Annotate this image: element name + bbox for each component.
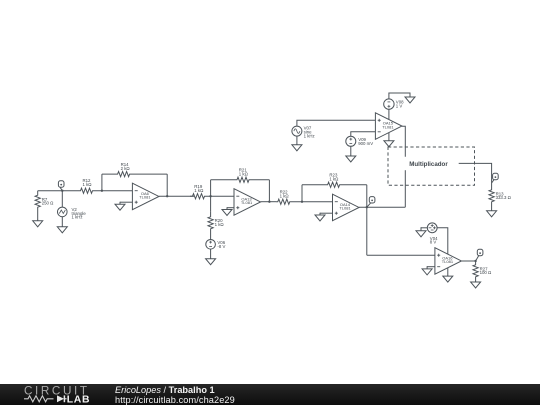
resistor R14 label [121, 162, 131, 171]
ground (V04) [416, 227, 426, 237]
resistor R27 label [480, 266, 492, 275]
ground (V2) [57, 226, 67, 233]
wire (OA13 output) [261, 201, 277, 203]
resistor R20 [208, 212, 213, 240]
resistor R7 label [42, 197, 54, 206]
wire (node D to R20) [210, 196, 212, 211]
svg-text:TL081: TL081 [339, 206, 351, 211]
wire (OA16 V- pin) [447, 268, 449, 276]
wire (OA15 output to multiplier) [402, 126, 405, 157]
ground (R27) [471, 281, 481, 288]
resistor R23 label [329, 173, 339, 182]
svg-text:333.3 Ω: 333.3 Ω [496, 195, 512, 200]
wire (input rail stage 1 right) [95, 190, 132, 192]
ground (OA16 V- pin) [443, 275, 453, 282]
resistor R27 [473, 261, 478, 282]
wire (feedback right OA6) [166, 174, 168, 196]
svg-text:TL081: TL081 [139, 195, 151, 200]
voltage source V09 [346, 136, 356, 146]
wire (V08 to OA15 V+ pin) [388, 109, 390, 119]
svg-text:900 mV: 900 mV [358, 141, 373, 146]
resistor R21 (feedback) [211, 177, 270, 182]
wire (feedback left OA6) [101, 174, 103, 191]
ground (V09) [346, 155, 356, 162]
voltage source V08 [384, 99, 394, 109]
voltage source V07 [292, 126, 302, 136]
resistor R13 label [496, 191, 512, 200]
ground (OA13 plus input) [222, 207, 232, 215]
ground (OA14 plus input) [315, 213, 325, 221]
wire (OA16 minus to ground) [427, 266, 435, 268]
svg-text:TL081: TL081 [382, 124, 394, 129]
wire (V09 to ground) [350, 146, 352, 156]
wire (R22 to OA14 minus) [292, 201, 333, 203]
wire (V04 to OA16 V+ pin) [437, 228, 448, 255]
voltage source V09 label [358, 137, 373, 146]
svg-text:1 V: 1 V [396, 104, 403, 109]
resistor R19 label [194, 184, 204, 193]
svg-text:-8 V: -8 V [217, 244, 225, 249]
op-amp OA14 [333, 194, 360, 221]
svg-text:1 kΩ: 1 kΩ [83, 182, 93, 187]
voltage source V06 [206, 240, 216, 250]
resistor R20 label [215, 218, 225, 227]
ground (OA15 V- pin) [384, 140, 394, 147]
resistor R21 label [239, 168, 249, 177]
wire (V06 to ground) [210, 249, 212, 258]
resistor R19 [190, 194, 207, 199]
resistor R14 (feedback) [102, 172, 167, 177]
voltage source V04 [427, 223, 437, 233]
svg-text:1 kHz: 1 kHz [72, 215, 83, 220]
ground (OA16 minus input) [422, 266, 432, 275]
wire (OA6 plus to ground) [120, 201, 132, 203]
voltage source V2 label [72, 207, 87, 220]
wire (feedback right OA13) [268, 180, 270, 202]
wire (V2 to ground) [61, 217, 63, 227]
svg-text:TL081: TL081 [241, 200, 253, 205]
wire (V2 to node A) [61, 191, 63, 208]
ground (OA6 plus input) [115, 202, 125, 211]
op-amp OA16 [435, 248, 462, 275]
wire (OA13 plus to ground) [227, 207, 234, 209]
resistor R12 label [83, 178, 93, 187]
ground (V07) [292, 144, 302, 151]
node G (OA14 output) [366, 206, 368, 208]
svg-text:1 kΩ: 1 kΩ [329, 177, 339, 182]
node D (OA13 input) [209, 195, 211, 197]
wire (feedback left OA14) [301, 185, 303, 202]
multiplier block (dashed box) [388, 147, 475, 185]
node B (feedback tap OA6) [101, 190, 103, 192]
svg-text:Multiplicador: Multiplicador [409, 161, 448, 168]
voltage source V08 label [396, 100, 404, 109]
wire (V09 to OA15 minus) [351, 132, 376, 137]
probe P4 [476, 249, 483, 261]
resistor R22 [276, 199, 292, 204]
svg-text:1 kΩ: 1 kΩ [194, 188, 204, 193]
probe P2 [367, 197, 375, 208]
wire (OA14 plus to ground) [320, 212, 333, 214]
node F (OA14 input) [301, 201, 303, 203]
voltage source V07 label [304, 126, 315, 139]
voltage source V04 label [430, 236, 438, 245]
resistor R13 [489, 185, 494, 211]
op-amp OA13 [234, 189, 261, 216]
svg-text:1 kΩ: 1 kΩ [239, 172, 249, 177]
wire (multiplier output) [459, 163, 492, 185]
probe P1 [58, 181, 64, 191]
ground (R7) [33, 220, 43, 227]
CircuitLab logo [24, 384, 124, 405]
svg-text:100 Ω: 100 Ω [480, 270, 492, 275]
wire (multiplier lower input stub) [404, 170, 406, 207]
svg-text:LAB: LAB [67, 395, 90, 405]
wire (to OA16 plus input) [367, 254, 435, 256]
ground (V06) [206, 258, 216, 265]
resistor R7 [35, 191, 40, 221]
node E (OA13 output) [268, 201, 270, 203]
resistor R22 label [280, 190, 290, 199]
svg-text:2 kΩ: 2 kΩ [121, 166, 131, 171]
wire (OA14 output to multiplier) [359, 206, 405, 208]
wire (V08 top to ground) [389, 93, 410, 99]
wire (input rail stage 1 left) [38, 190, 78, 192]
probe P3 [492, 173, 499, 183]
svg-text:8 V: 8 V [430, 240, 437, 245]
voltage source V2 [58, 207, 68, 217]
node A (V2 tap) [61, 190, 63, 192]
voltage source V06 label [217, 240, 225, 249]
wire (R19 to OA13 minus) [207, 195, 234, 197]
op-amp OA15 [375, 113, 402, 140]
resistor R12 [78, 188, 95, 193]
svg-text:1 kHz: 1 kHz [304, 133, 315, 138]
op-amp OA6 [132, 183, 159, 210]
wire (feedback left OA13) [210, 180, 212, 196]
svg-text:1 kΩ: 1 kΩ [280, 193, 290, 198]
wire (V07 to ground) [296, 136, 298, 145]
ground (V08) [405, 93, 415, 104]
svg-text:250 Ω: 250 Ω [42, 201, 54, 206]
wire (V04 to ground) [421, 227, 427, 229]
node H (OA16 output) [474, 260, 476, 262]
wire (OA15 V- pin) [388, 133, 390, 141]
wire (feedback right OA14 / down to OA16) [366, 185, 368, 255]
node C (OA6 output) [166, 195, 168, 197]
resistor R23 (feedback) [302, 182, 367, 187]
ground (R13) [487, 210, 497, 217]
wire (OA16 output) [461, 260, 475, 262]
wire (V07 to OA15 plus) [297, 120, 376, 126]
svg-text:TL081: TL081 [442, 259, 454, 264]
wire (OA6 output) [159, 195, 194, 197]
svg-text:1 kΩ: 1 kΩ [215, 222, 225, 227]
